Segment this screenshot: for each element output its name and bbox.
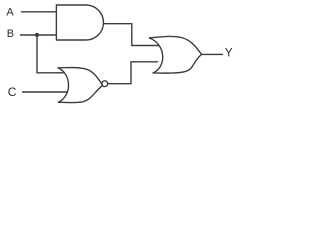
svg-text:Y: Y [225, 48, 233, 60]
OR gate U3 [149, 36, 201, 73]
wire U2 output to U3 bottom input [108, 62, 159, 84]
svg-text:B: B [7, 28, 14, 40]
svg-text:A: A [6, 7, 14, 19]
wire B branch down to U2 [37, 35, 66, 73]
svg-text:C: C [8, 85, 17, 99]
AND gate U1 [56, 5, 103, 40]
NOR gate U2 [58, 68, 103, 103]
wire B to U1 [20, 34, 58, 36]
NOR bubble [102, 81, 108, 87]
wire A to U1 [21, 11, 58, 13]
wire C to U2 [22, 91, 68, 93]
junction on B wire [35, 33, 39, 37]
wire U3 output to Y [201, 53, 223, 55]
wire U1 output to U3 top input [104, 24, 160, 46]
